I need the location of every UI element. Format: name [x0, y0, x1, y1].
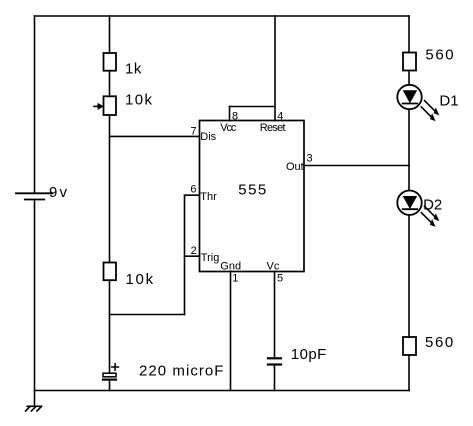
- svg-text:Trig: Trig: [201, 252, 220, 264]
- svg-text:Gnd: Gnd: [220, 261, 241, 273]
- svg-text:4: 4: [277, 110, 283, 122]
- svg-text:10k: 10k: [125, 92, 153, 109]
- svg-text:10pF: 10pF: [291, 346, 327, 363]
- svg-text:5: 5: [277, 272, 283, 284]
- svg-text:7: 7: [190, 125, 196, 137]
- svg-text:10k: 10k: [126, 271, 155, 288]
- svg-text:Out: Out: [286, 161, 304, 173]
- svg-text:220 microF: 220 microF: [139, 363, 225, 380]
- svg-text:1: 1: [232, 272, 238, 284]
- svg-text:6: 6: [190, 183, 196, 195]
- svg-text:Vc: Vc: [267, 261, 280, 273]
- svg-text:Thr: Thr: [200, 191, 217, 203]
- svg-text:2: 2: [191, 245, 197, 257]
- svg-text:555: 555: [238, 182, 267, 199]
- svg-text:D2: D2: [423, 197, 442, 214]
- svg-text:D1: D1: [439, 92, 458, 109]
- svg-text:Reset: Reset: [260, 122, 286, 134]
- svg-text:560: 560: [425, 47, 455, 64]
- svg-text:9v: 9v: [49, 184, 69, 201]
- svg-text:560: 560: [425, 334, 455, 351]
- svg-text:Dis: Dis: [200, 131, 216, 143]
- svg-text:8: 8: [232, 110, 238, 122]
- svg-text:3: 3: [307, 152, 313, 164]
- svg-text:Vcc: Vcc: [220, 122, 237, 134]
- svg-text:1k: 1k: [125, 61, 142, 78]
